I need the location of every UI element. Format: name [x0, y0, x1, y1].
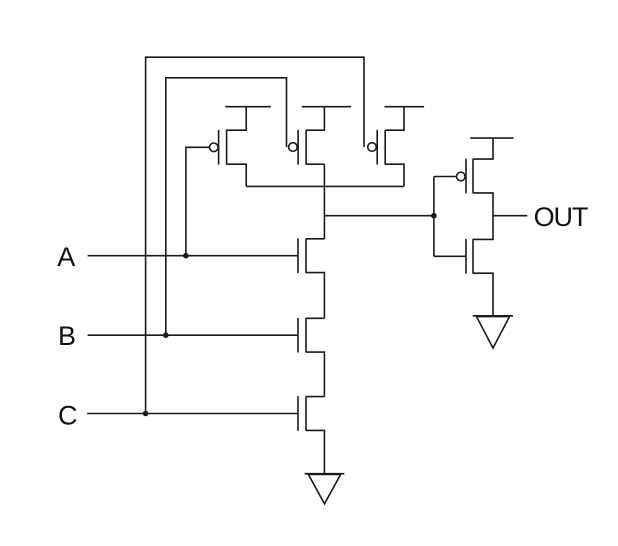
svg-text:A: A: [57, 242, 75, 272]
svg-text:C: C: [58, 401, 78, 431]
svg-text:B: B: [58, 321, 76, 351]
svg-text:OUT: OUT: [534, 202, 588, 232]
